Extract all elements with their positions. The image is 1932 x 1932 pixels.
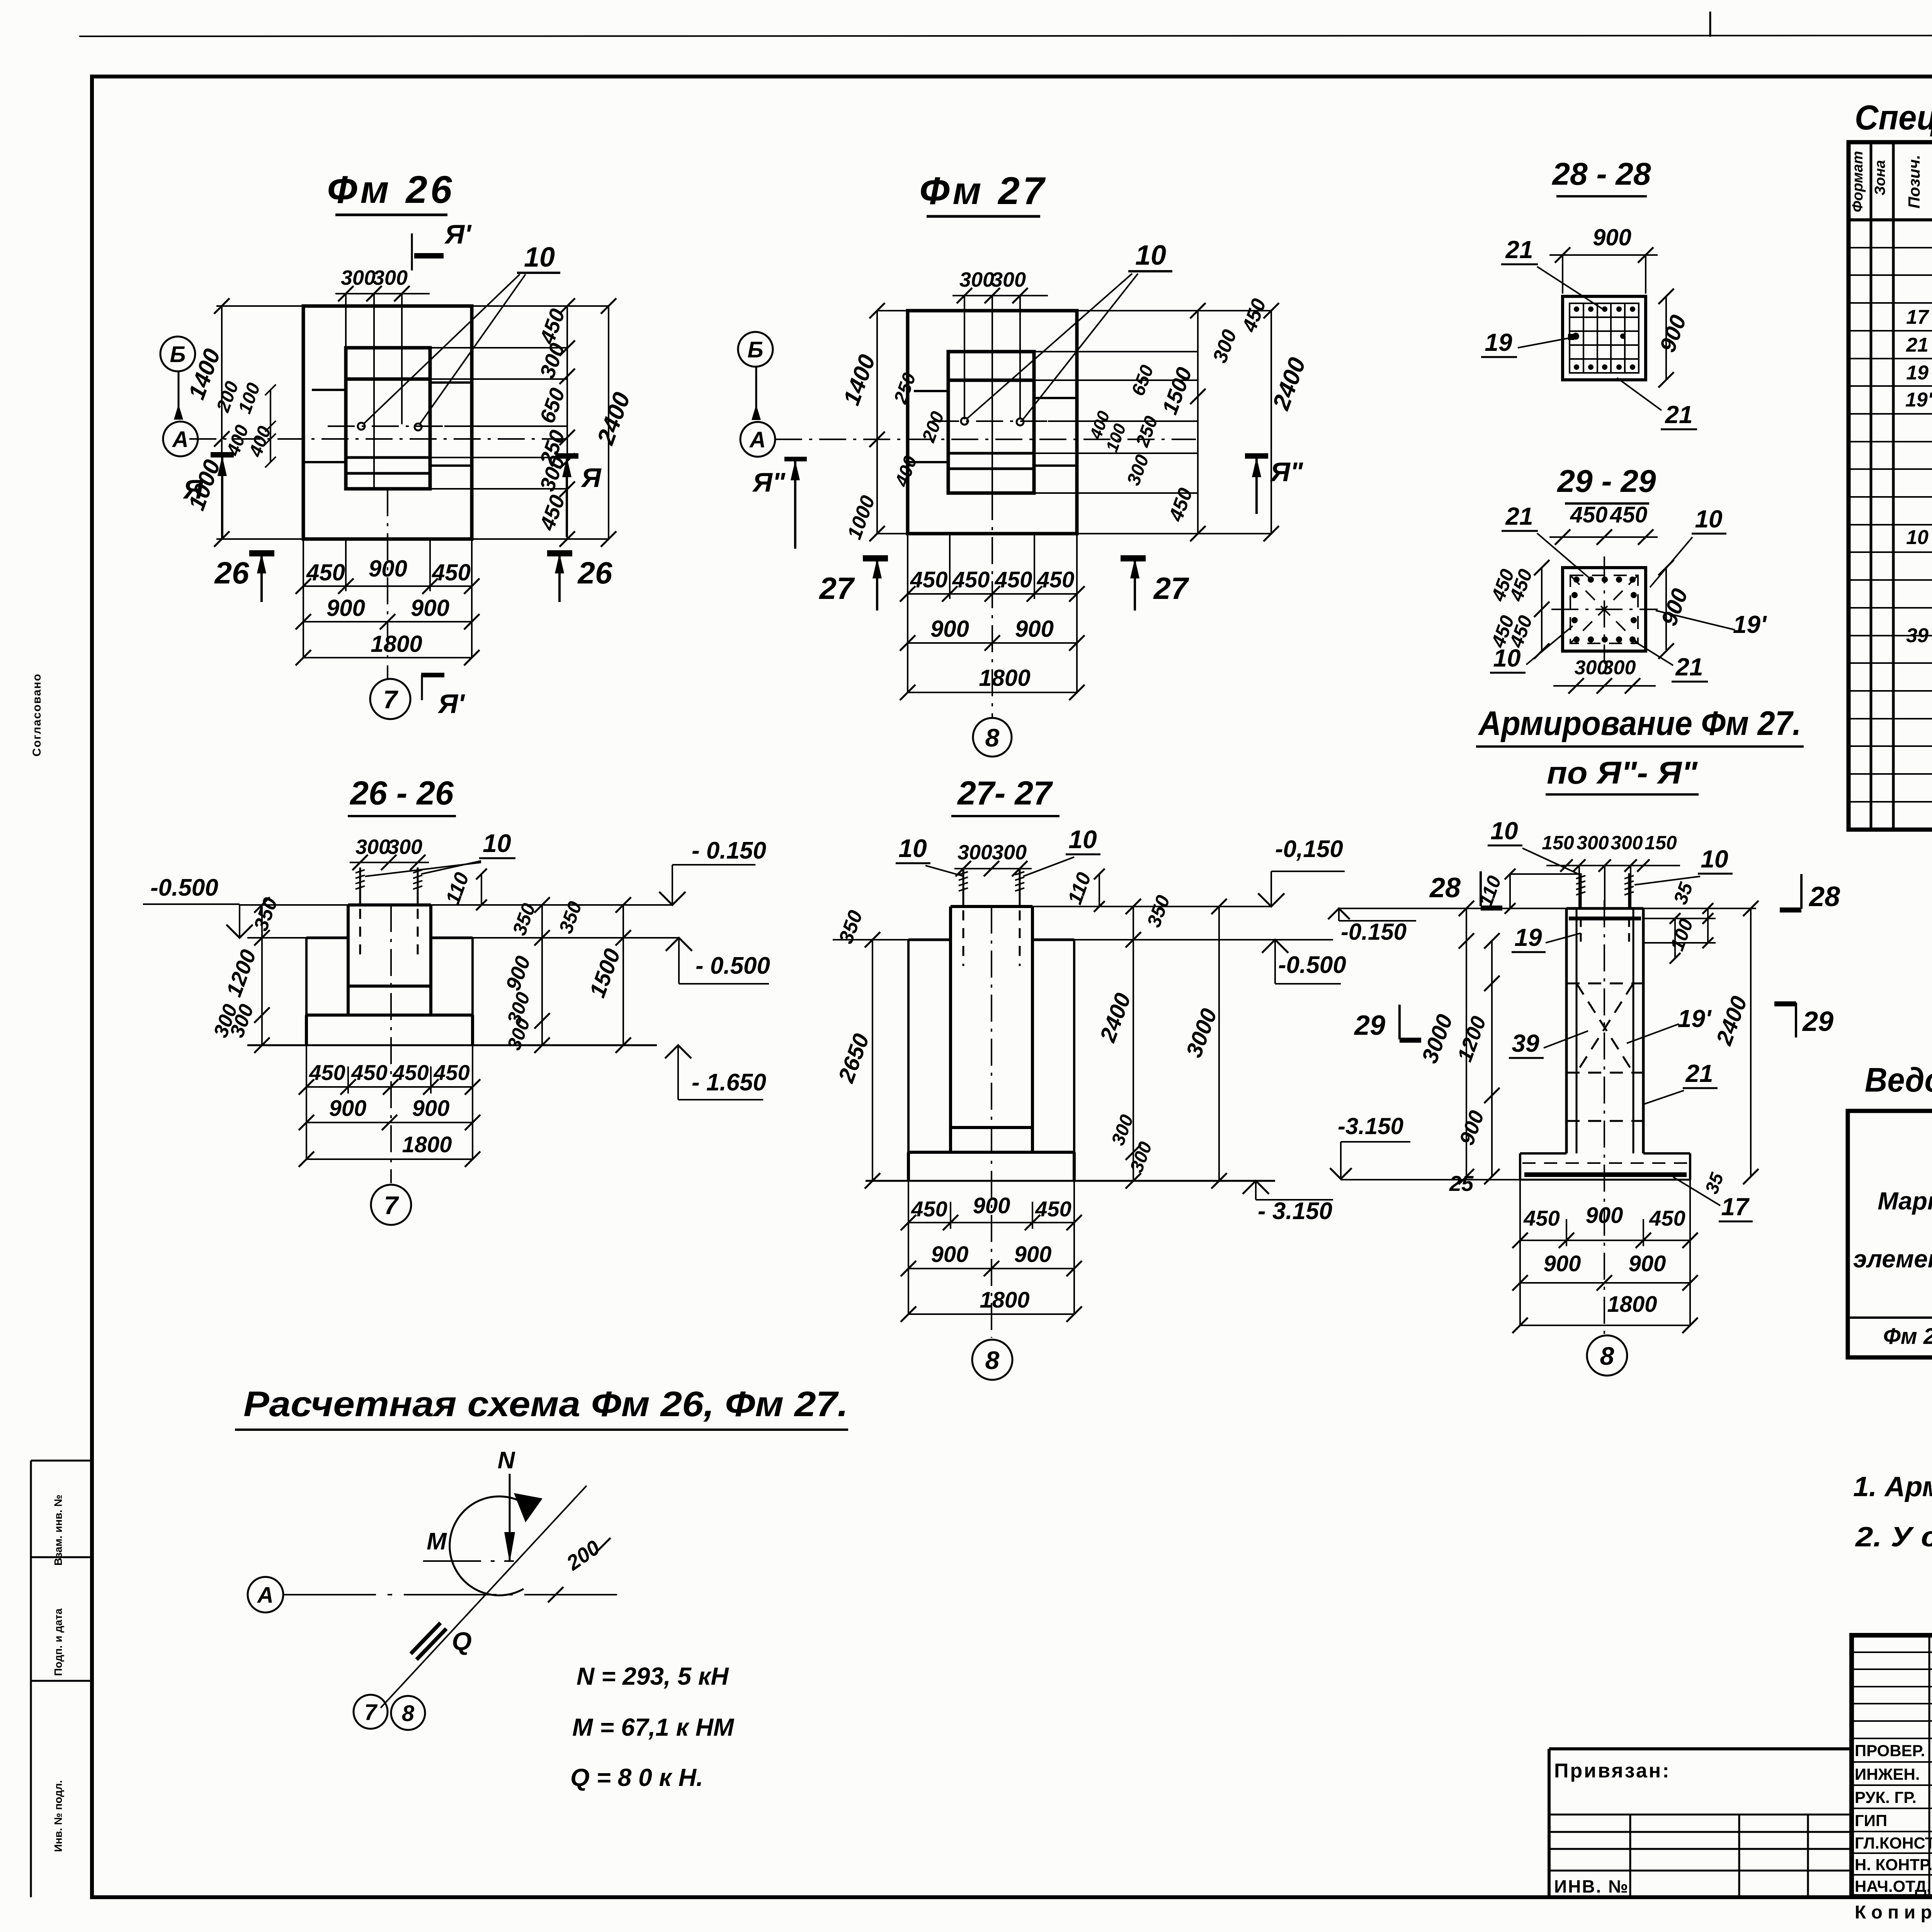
title block: outer xyxy=(1852,1635,1932,1896)
section 29-29 diagonals xyxy=(1570,575,1638,643)
svg-text:27: 27 xyxy=(1153,571,1189,605)
svg-text:-0.500: -0.500 xyxy=(150,874,218,901)
svg-text:Я': Я' xyxy=(444,219,472,249)
svg-text:27: 27 xyxy=(819,571,855,605)
svg-text:Н. КОНТР.: Н. КОНТР. xyxy=(1855,1855,1932,1874)
plan Fm27 axis circle A xyxy=(740,422,775,457)
sec26 center line xyxy=(390,905,392,1183)
svg-text:150: 150 xyxy=(1645,832,1677,854)
svg-text:900: 900 xyxy=(412,1096,450,1121)
svg-text:19': 19' xyxy=(1733,611,1767,638)
sec27 ground line xyxy=(833,939,908,940)
svg-text:10: 10 xyxy=(483,829,511,857)
plan Fm26 side marker Ya right xyxy=(555,453,578,459)
svg-text:28 - 28: 28 - 28 xyxy=(1551,156,1651,192)
title block: thin top rows xyxy=(1852,1651,1932,1653)
grid bubble 8 (sec27) xyxy=(972,1340,1012,1380)
svg-text:450: 450 xyxy=(309,1060,345,1085)
svg-text:26 - 26: 26 - 26 xyxy=(349,775,454,812)
svg-text:1800: 1800 xyxy=(1607,1292,1657,1317)
svg-text:19: 19 xyxy=(1514,923,1542,951)
svg-text:N = 293, 5 кН: N = 293, 5 кН xyxy=(577,1662,729,1690)
svg-text:300: 300 xyxy=(1611,832,1643,854)
plan Fm26 bottom dim row 1800 xyxy=(303,657,472,658)
plan Fm27 inner lines xyxy=(948,379,1034,382)
svg-text:21: 21 xyxy=(1505,236,1533,264)
sec26 ground line xyxy=(247,937,306,939)
svg-text:450: 450 xyxy=(392,1060,429,1085)
svg-text:10: 10 xyxy=(898,834,927,862)
section 29-29 right dim 900 xyxy=(1665,568,1667,651)
svg-text:26: 26 xyxy=(577,556,612,590)
plan Fm27 marker Ya-dprime right xyxy=(1245,453,1268,459)
svg-text:900: 900 xyxy=(930,616,969,642)
svg-text:К о п и р о в а л : Л о г и н: К о п и р о в а л : Л о г и н о в а xyxy=(1855,1902,1932,1923)
svg-text:элемента: элемента xyxy=(1853,1245,1932,1273)
plan Fm26 center line to bubble 7 xyxy=(387,489,388,679)
armir right dim 2400 xyxy=(1750,908,1752,1177)
svg-text:150: 150 xyxy=(1542,832,1574,854)
svg-text:900: 900 xyxy=(329,1096,367,1121)
raschet moment circle arc M xyxy=(450,1497,534,1595)
armir top mesh 19 xyxy=(1569,917,1641,920)
svg-text:Привязан:: Привязан: xyxy=(1554,1760,1671,1782)
svg-text:РУК. ГР.: РУК. ГР. xyxy=(1855,1788,1917,1806)
svg-text:300: 300 xyxy=(1602,656,1636,679)
svg-text:26: 26 xyxy=(214,556,249,590)
svg-text:ИНВ. №: ИНВ. № xyxy=(1554,1876,1629,1896)
svg-text:Фм 26: Фм 26 xyxy=(327,168,455,211)
svg-text:450: 450 xyxy=(1523,1206,1560,1230)
svg-text:10: 10 xyxy=(524,242,555,273)
section 29-29 rebar dots xyxy=(1573,577,1580,583)
raschet axis line xyxy=(283,1594,619,1595)
svg-text:900: 900 xyxy=(1544,1251,1581,1276)
plan Fm26 embedded part circles (MH1) xyxy=(358,423,365,430)
svg-text:- 0.150: - 0.150 xyxy=(692,837,766,864)
sec27 bottom dims row1 xyxy=(908,1222,1074,1223)
svg-text:ПРОВЕР.: ПРОВЕР. xyxy=(1855,1742,1925,1760)
sec27 bottom dims row3 xyxy=(908,1313,1074,1315)
sec26 slab xyxy=(306,1014,473,1017)
plan Fm27 axis circle B xyxy=(738,332,773,367)
svg-text:27- 27: 27- 27 xyxy=(957,775,1053,812)
plan Fm26 marker Ya-prime bottom xyxy=(421,673,444,677)
svg-text:Расчетная схема Фм 26, Фм 27.: Расчетная схема Фм 26, Фм 27. xyxy=(243,1384,848,1424)
armir left dims 1200 900 xyxy=(1491,941,1493,1177)
svg-text:7: 7 xyxy=(364,1700,378,1725)
svg-text:10: 10 xyxy=(1068,825,1097,854)
plan Fm27 right extension lines xyxy=(1034,351,1198,352)
sec26 column xyxy=(348,903,431,906)
svg-text:300: 300 xyxy=(991,268,1026,291)
svg-text:450: 450 xyxy=(1610,502,1648,527)
grid bubble 8 xyxy=(973,718,1012,757)
svg-text:8: 8 xyxy=(985,1346,1000,1374)
plan Fm27 bottom dim row 900 900 xyxy=(908,642,1077,644)
svg-text:1800: 1800 xyxy=(402,1132,452,1157)
vedomost grid xyxy=(1848,1111,1932,1357)
armir anchor bolts xyxy=(1580,873,1582,908)
sec26 pit walls xyxy=(305,938,308,1015)
svg-text:300: 300 xyxy=(992,841,1027,864)
svg-text:300: 300 xyxy=(959,268,994,291)
armir bottom mesh 17 xyxy=(1524,1172,1687,1177)
svg-text:1800: 1800 xyxy=(980,1287,1029,1313)
svg-text:Я: Я xyxy=(580,463,602,493)
svg-text:39: 39 xyxy=(1512,1029,1539,1057)
armir marker 28 right xyxy=(1800,874,1803,909)
armir slab xyxy=(1520,1152,1566,1155)
sec26 right dim chain xyxy=(541,905,543,1045)
svg-text:Б: Б xyxy=(747,337,763,362)
svg-text:19: 19 xyxy=(1485,328,1512,356)
svg-text:-0.150: -0.150 xyxy=(1341,919,1406,945)
svg-text:8: 8 xyxy=(1600,1342,1614,1370)
svg-text:900: 900 xyxy=(327,595,365,621)
svg-text:Формат: Формат xyxy=(1850,151,1866,213)
svg-text:450: 450 xyxy=(1037,567,1075,592)
section 29-29 center lines xyxy=(1604,556,1605,663)
svg-text:ИНЖЕН.: ИНЖЕН. xyxy=(1855,1765,1920,1783)
svg-text:Марка: Марка xyxy=(1878,1187,1932,1215)
svg-text:Я': Я' xyxy=(437,689,465,719)
svg-text:Ведомость расхода стали на оди: Ведомость расхода стали на один элемент,… xyxy=(1865,1061,1932,1099)
svg-text:M = 67,1 к НМ: M = 67,1 к НМ xyxy=(572,1713,735,1741)
sec27 pit walls xyxy=(907,940,910,1152)
svg-text:29: 29 xyxy=(1354,1010,1385,1041)
svg-text:19: 19 xyxy=(1906,362,1929,384)
svg-text:300: 300 xyxy=(355,835,390,859)
armir left dim 3000 xyxy=(1466,908,1467,1177)
svg-text:19': 19' xyxy=(1905,389,1932,411)
svg-text:Позич.: Позич. xyxy=(1905,155,1923,208)
sec27 anchor bolts xyxy=(963,869,964,906)
svg-text:А: А xyxy=(257,1583,274,1608)
armir bottom dims row3 xyxy=(1520,1325,1690,1326)
svg-text:900: 900 xyxy=(1586,1203,1623,1228)
svg-text:300: 300 xyxy=(1577,832,1609,854)
plan Fm27 right dim texts xyxy=(1197,311,1199,534)
plan Fm26 section marker 26 right xyxy=(547,550,572,556)
plan Fm27 section marker 27 right xyxy=(1121,555,1146,561)
armir dashed lines xyxy=(1566,983,1643,985)
svg-text:Фм 27: Фм 27 xyxy=(1883,1324,1932,1349)
sec27 slab xyxy=(908,1151,1074,1154)
plan Fm26 bottom dim row 450 900 450 xyxy=(303,585,472,587)
sec26 bottom dims row3 1800 xyxy=(306,1158,473,1160)
grid bubble 7 xyxy=(370,679,410,719)
plan Fm26 inner lines xyxy=(346,378,430,381)
svg-text:Инв. № подл.: Инв. № подл. xyxy=(52,1780,64,1852)
svg-text:450: 450 xyxy=(351,1060,387,1085)
svg-text:Я": Я" xyxy=(1270,457,1303,487)
svg-text:-3.150: -3.150 xyxy=(1338,1113,1403,1139)
svg-text:900: 900 xyxy=(1629,1251,1666,1276)
svg-text:10: 10 xyxy=(1135,240,1166,271)
spec table grid xyxy=(1849,142,1932,830)
sec26 bottom dims row1 450x4 xyxy=(306,1086,473,1088)
svg-text:900: 900 xyxy=(1593,224,1631,250)
svg-text:10: 10 xyxy=(1906,526,1929,549)
svg-text:300: 300 xyxy=(341,266,376,289)
svg-text:450: 450 xyxy=(433,1060,469,1085)
axis circle A xyxy=(163,422,198,456)
section 29-29 left dims 450 450 xyxy=(1541,568,1543,651)
svg-text:29: 29 xyxy=(1802,1006,1833,1037)
svg-text:8: 8 xyxy=(985,723,1000,752)
svg-text:300: 300 xyxy=(373,266,408,289)
plan Fm26 bottom dim row 900 900 xyxy=(303,621,472,622)
svg-text:10: 10 xyxy=(1701,845,1728,873)
svg-text:Я": Я" xyxy=(752,467,786,497)
svg-text:450: 450 xyxy=(432,560,471,585)
svg-text:450: 450 xyxy=(1035,1197,1071,1221)
plan Fm26 section marker Ya-prime top xyxy=(411,233,413,270)
svg-text:ГЛ.КОНСТ.: ГЛ.КОНСТ. xyxy=(1855,1834,1932,1852)
raschet N arrow xyxy=(509,1474,511,1561)
axis circle B xyxy=(160,337,195,371)
svg-text:по Я"- Я": по Я"- Я" xyxy=(1547,755,1698,791)
svg-text:450: 450 xyxy=(952,567,990,592)
svg-text:Q = 8 0 к Н.: Q = 8 0 к Н. xyxy=(570,1764,703,1791)
sec26 far right dim 1500 xyxy=(622,905,624,1045)
left margin stamp boxes xyxy=(31,1460,92,1462)
svg-text:M: M xyxy=(427,1528,447,1555)
svg-text:900: 900 xyxy=(1014,1242,1052,1267)
svg-text:21: 21 xyxy=(1665,401,1692,429)
armir vertical rebar xyxy=(1576,908,1578,1153)
svg-text:Подп. и дата: Подп. и дата xyxy=(52,1608,64,1676)
svg-text:900: 900 xyxy=(411,595,449,621)
svg-text:300: 300 xyxy=(388,835,422,859)
sec27 bottom dims row2 xyxy=(908,1268,1074,1269)
svg-text:1800: 1800 xyxy=(371,631,422,657)
svg-text:900: 900 xyxy=(931,1242,969,1267)
plan Fm27 bottom dim row 1800 xyxy=(908,692,1077,693)
svg-text:28: 28 xyxy=(1808,881,1840,912)
svg-text:17: 17 xyxy=(1721,1193,1750,1221)
svg-text:Армирование Фм 27.: Армирование Фм 27. xyxy=(1478,704,1801,742)
svg-text:- 3.150: - 3.150 xyxy=(1258,1198,1332,1225)
svg-text:7: 7 xyxy=(384,1191,400,1219)
plan Fm27 embedded part circles xyxy=(961,418,968,425)
grid bubble 8 (armir) xyxy=(1587,1335,1627,1376)
section 28-28 mesh dots xyxy=(1574,306,1579,312)
title block: signature columns xyxy=(1929,1635,1930,1896)
svg-text:Согласовано: Согласовано xyxy=(31,673,43,757)
svg-text:25: 25 xyxy=(1449,1171,1474,1196)
svg-text:Зона: Зона xyxy=(1872,160,1888,196)
plan Fm26 axis A line xyxy=(189,438,567,440)
svg-text:2. У сетки со знаком* снять: 2. У сетки со знаком* снять верхний стер… xyxy=(1855,1522,1932,1553)
svg-text:450: 450 xyxy=(995,567,1032,592)
sec27 column xyxy=(951,905,1032,908)
plan Fm27 left dims xyxy=(876,311,878,534)
armir column outline xyxy=(1565,908,1568,1153)
armir bottom dims row2 xyxy=(1520,1282,1690,1284)
svg-text:21: 21 xyxy=(1505,502,1533,530)
svg-text:А: А xyxy=(172,427,189,452)
svg-text:-0,150: -0,150 xyxy=(1275,836,1343,862)
plan Fm26 side marker Ya left xyxy=(211,452,234,457)
svg-text:Взам. инв. №: Взам. инв. № xyxy=(52,1495,64,1566)
svg-text:21: 21 xyxy=(1685,1060,1713,1087)
svg-text:А: А xyxy=(749,427,766,452)
svg-text:-0.500: -0.500 xyxy=(1278,952,1346,978)
plan Fm26 right dim chain 450/300/650/250/300/450 xyxy=(566,306,568,539)
plan Fm27 axis A line xyxy=(775,439,1196,440)
plan Fm27 column outline xyxy=(948,352,1034,493)
svg-text:10: 10 xyxy=(1695,505,1722,533)
armir marker 29 right xyxy=(1795,1003,1797,1037)
svg-text:21: 21 xyxy=(1675,653,1703,681)
paper top edge line xyxy=(79,35,1932,36)
svg-text:450: 450 xyxy=(306,560,345,585)
svg-text:450: 450 xyxy=(911,1197,947,1221)
svg-text:28: 28 xyxy=(1429,872,1461,903)
svg-text:10: 10 xyxy=(1490,817,1518,845)
svg-text:1800: 1800 xyxy=(979,665,1030,691)
sec27 right dims 2400 3000 xyxy=(1133,906,1134,1181)
svg-text:Б: Б xyxy=(170,342,185,367)
plan Fm26 outer slab outline xyxy=(303,306,472,539)
plan Fm26 right extension lines xyxy=(430,347,567,349)
sec26 anchor bolts xyxy=(359,867,361,905)
title block: privyazan box xyxy=(1549,1747,1852,1750)
svg-text:Q: Q xyxy=(452,1627,471,1655)
grid bubble 7 (sec26) xyxy=(371,1185,411,1225)
sec27 center line xyxy=(991,906,992,1338)
svg-text:450: 450 xyxy=(910,567,948,592)
svg-text:21: 21 xyxy=(1906,334,1929,356)
svg-text:900: 900 xyxy=(1015,616,1054,642)
svg-text:7: 7 xyxy=(383,685,399,714)
section 28-28 column mesh square xyxy=(1563,296,1646,380)
plan Fm27 center line to bubble 8 xyxy=(992,493,993,717)
svg-text:29 - 29: 29 - 29 xyxy=(1556,464,1656,499)
sec26 bottom dims row2 900 900 xyxy=(306,1122,473,1123)
svg-text:- 1.650: - 1.650 xyxy=(692,1069,766,1096)
section 29-29 column section square xyxy=(1563,568,1646,651)
plan Fm26 right outer dim 2400 xyxy=(608,306,609,539)
svg-text:N: N xyxy=(498,1447,515,1474)
svg-text:- 0.500: - 0.500 xyxy=(696,952,770,979)
armir bottom dims row1 xyxy=(1520,1240,1690,1241)
svg-text:ГИП: ГИП xyxy=(1855,1811,1887,1830)
svg-text:НАЧ.ОТД.: НАЧ.ОТД. xyxy=(1855,1877,1931,1895)
svg-text:Фм 27: Фм 27 xyxy=(919,169,1047,213)
raschet Q diagonal xyxy=(381,1486,587,1708)
svg-text:17: 17 xyxy=(1906,306,1929,328)
armir center line xyxy=(1604,900,1605,1335)
svg-text:19': 19' xyxy=(1678,1005,1712,1032)
svg-text:300: 300 xyxy=(957,841,992,864)
raschet axis A circle xyxy=(248,1577,283,1612)
svg-text:10: 10 xyxy=(1493,644,1520,672)
svg-text:1. Армирование Фм 26 см. лис: 1. Армирование Фм 26 см. лист 19. xyxy=(1853,1471,1932,1502)
plan Fm26 left dim line 1400/1000 xyxy=(221,306,223,539)
plan Fm26 column outline xyxy=(346,348,430,489)
plan Fm27 bottom dim row 450x4 xyxy=(908,593,1077,595)
svg-text:Спецификация монолитного фунда: Спецификация монолитного фундамента Фм 2… xyxy=(1855,99,1932,137)
svg-text:8: 8 xyxy=(402,1701,415,1726)
svg-text:39: 39 xyxy=(1906,624,1929,647)
svg-text:450: 450 xyxy=(1649,1206,1685,1230)
svg-text:450: 450 xyxy=(1570,502,1608,527)
plan Fm27 outer slab outline xyxy=(908,311,1077,534)
armir X cross xyxy=(1577,983,1633,1073)
section 28-28 right dim 900 xyxy=(1665,296,1667,380)
raschet bubbles 7 8 xyxy=(354,1695,388,1729)
